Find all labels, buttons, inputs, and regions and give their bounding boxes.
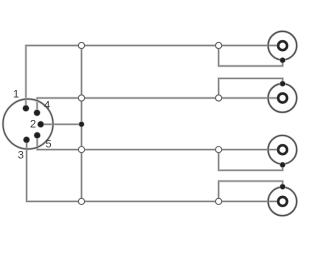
RCA plug J1 shield dot bbox=[280, 57, 286, 63]
DIN pin 3 bbox=[23, 136, 30, 143]
wire pin4 to RCA J2 center (signal 2) bbox=[37, 98, 278, 113]
DIN pin 5 bbox=[34, 132, 41, 139]
RCA plug J3 center pin bbox=[278, 145, 287, 154]
RCA plug J1 body bbox=[268, 31, 297, 60]
node tap B2 on signal 2 bbox=[216, 95, 222, 101]
DIN pin 2 bbox=[37, 121, 44, 128]
wire shield tap to RCA J2 bbox=[219, 78, 283, 98]
RCA plug J4 body bbox=[268, 187, 297, 216]
pin label 4 bbox=[44, 100, 50, 112]
wire vertical ground bus bbox=[80, 46, 83, 202]
svg-text:1: 1 bbox=[13, 89, 19, 101]
DIN pin 1 bbox=[22, 105, 29, 112]
wire pin5 to RCA J3 center (signal 3) bbox=[37, 135, 278, 149]
wire shield tap to RCA J4 bbox=[219, 181, 283, 201]
RCA plug J2 body bbox=[268, 84, 297, 113]
RCA plug J3 body bbox=[268, 135, 297, 164]
node tap B4 on signal 4 bbox=[216, 198, 222, 204]
wire pin3 to RCA J4 center (signal 4) bbox=[27, 140, 279, 202]
pin label 5 bbox=[45, 139, 51, 151]
pin label 1 bbox=[13, 89, 19, 101]
RCA plug J2 center pin bbox=[278, 94, 287, 103]
node tap B3 on signal 3 bbox=[216, 147, 222, 153]
RCA plug J4 center pin bbox=[278, 197, 287, 206]
wire shield tap to RCA J3 bbox=[219, 150, 283, 171]
RCA plug J3 shield dot bbox=[280, 162, 286, 168]
node crossing A4 on signal 4 bbox=[78, 198, 84, 204]
pin label 3 bbox=[18, 150, 24, 162]
RCA plug J4 shield dot bbox=[280, 184, 286, 190]
junction dot bus-pin2 bbox=[79, 121, 85, 127]
svg-text:2: 2 bbox=[30, 118, 36, 130]
pin label 2 bbox=[30, 118, 36, 130]
svg-text:3: 3 bbox=[18, 150, 24, 162]
node crossing A3 on signal 3 bbox=[78, 147, 84, 153]
RCA plug J2 shield dot bbox=[280, 81, 286, 87]
node crossing A1 on signal 1 bbox=[78, 42, 84, 48]
DIN pin 4 bbox=[34, 109, 41, 116]
wire shield tap to RCA J1 bbox=[219, 46, 283, 67]
DIN plug X1 body bbox=[3, 99, 53, 149]
RCA plug J1 center pin bbox=[278, 41, 287, 50]
node tap B1 on signal 1 bbox=[216, 42, 222, 48]
node crossing A2 on signal 2 bbox=[78, 95, 84, 101]
svg-text:4: 4 bbox=[44, 100, 50, 112]
svg-text:5: 5 bbox=[45, 139, 51, 151]
wire pin2 ground lead to bus bbox=[41, 123, 82, 126]
wire pin1 to RCA J1 center (signal 1) bbox=[26, 46, 279, 109]
